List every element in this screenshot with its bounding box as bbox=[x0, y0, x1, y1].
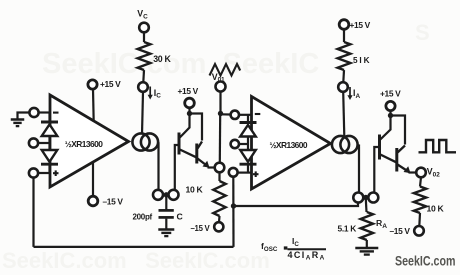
wire supply to Q2 collector bbox=[190, 114, 203, 141]
ground at U1 inverting input bbox=[11, 118, 25, 121]
wire Q1 base lead bbox=[175, 145, 179, 190]
terminal V01 bbox=[216, 82, 226, 92]
terminal V02 bbox=[416, 168, 426, 178]
wire 10K to -15V stage2 bbox=[418, 213, 421, 226]
wire plus input to U1 bbox=[38, 172, 50, 174]
svg-text:C: C bbox=[177, 212, 184, 222]
wire 5.1K to IA terminal bbox=[342, 70, 345, 82]
svg-text:½XR13600: ½XR13600 bbox=[270, 140, 308, 150]
wire emitter node to 10K bbox=[218, 172, 220, 181]
wire D1 to D2 bbox=[48, 136, 50, 150]
diode D3 bbox=[240, 121, 257, 124]
capacitor C 200pF bbox=[159, 209, 174, 212]
plus sign U2 bbox=[253, 173, 259, 175]
svg-text:200pf: 200pf bbox=[133, 213, 153, 222]
wire cap to ground bbox=[165, 219, 167, 229]
transistor Q4 base bar bbox=[395, 148, 398, 172]
diode D2 bbox=[42, 150, 58, 162]
wire Q4 emitter to V02 bbox=[409, 171, 417, 173]
terminal -15V stage1 bbox=[214, 222, 223, 231]
terminal U1 inverting input bbox=[29, 108, 38, 117]
resistor RA 5.1K bbox=[361, 212, 373, 240]
terminal U1 non-inverting input bbox=[29, 168, 38, 177]
transistor Q4 collector bbox=[398, 146, 406, 153]
wire 10K to -15V bbox=[218, 216, 221, 222]
svg-text:–15 V: –15 V bbox=[191, 224, 211, 233]
ground below RA bbox=[355, 247, 378, 250]
wire cap node down bbox=[165, 196, 167, 210]
svg-text:30 K: 30 K bbox=[153, 54, 171, 64]
svg-text:10 K: 10 K bbox=[186, 184, 204, 194]
wire R1 to Ic terminal bbox=[142, 70, 145, 82]
svg-text:SeekIC.com SeekIC: SeekIC.com SeekIC bbox=[42, 48, 319, 80]
junction feedback branch bbox=[231, 203, 236, 208]
wire feedback bottom bbox=[34, 246, 234, 248]
svg-text:10 K: 10 K bbox=[427, 204, 445, 214]
wire inv input to U1 bbox=[39, 111, 50, 113]
wire Q3 base lead bbox=[374, 147, 379, 193]
svg-text:SeekIC.com: SeekIC.com bbox=[395, 253, 456, 269]
wire RA node down bbox=[365, 199, 368, 212]
terminal Vc bbox=[139, 23, 149, 33]
diode D4 bbox=[240, 150, 256, 162]
wire Ic to OTA1 output stage bbox=[142, 92, 143, 135]
wire inv input to ground bbox=[18, 113, 30, 120]
op-amp U1 1/2 XR13600 bbox=[50, 95, 129, 187]
op-amp U2 1/2 XR13600 bbox=[252, 97, 331, 190]
wire OTA1 out down to pin bbox=[157, 143, 160, 190]
junction V01 node bbox=[218, 111, 223, 116]
transistor Q2 base bar bbox=[195, 144, 198, 164]
terminal U2 non-inverting input bbox=[229, 168, 238, 177]
svg-text:½XR13600: ½XR13600 bbox=[65, 139, 103, 149]
resistor 10K stage2 bbox=[414, 187, 426, 214]
transistor Q4 emitter bbox=[398, 165, 410, 173]
terminal buffer1 emitter bbox=[215, 163, 225, 173]
wire supply to Q4 collector bbox=[391, 116, 406, 145]
svg-text:–15 V: –15 V bbox=[103, 197, 124, 207]
wire V02 to 10K bbox=[420, 177, 421, 186]
triangle wave symbol bbox=[210, 64, 241, 76]
resistor 10K stage1 bbox=[213, 181, 225, 216]
terminal OTA1 output pin bbox=[153, 190, 163, 200]
terminal diode bias U2 bbox=[231, 140, 239, 148]
terminal +15V buffer1 bbox=[185, 98, 195, 108]
wire D4 to plus input U2 bbox=[247, 165, 249, 174]
wire bias stub U2 bbox=[239, 143, 248, 145]
svg-text:5 I K: 5 I K bbox=[353, 56, 370, 65]
wire diode chain top U1 bbox=[48, 113, 50, 123]
wire U2 inv input stub bbox=[239, 114, 252, 116]
transistor Q3 collector bbox=[380, 116, 390, 140]
junction buffer2 supply bbox=[388, 113, 393, 118]
terminal -15V stage2 bbox=[414, 226, 424, 236]
current arrow IA bbox=[349, 87, 351, 98]
resistor R1 30K bbox=[138, 42, 151, 70]
wire feedback up to U2 plus bbox=[232, 176, 234, 247]
resistor 51K bias bbox=[338, 42, 351, 70]
terminal +15V U1 bbox=[88, 80, 97, 89]
wire +15V to U1 top bbox=[92, 89, 95, 122]
svg-text:+15 V: +15 V bbox=[100, 79, 121, 89]
terminal buffer1 input pin bbox=[169, 190, 179, 200]
wire diode chain top U2 bbox=[247, 115, 249, 123]
svg-text:+15 V: +15 V bbox=[380, 89, 401, 99]
terminal IA bbox=[338, 82, 348, 92]
terminal buffer2 input pin bbox=[368, 193, 378, 203]
wire IA to OTA2 output stage bbox=[343, 92, 344, 137]
wire U1 bottom to -15V bbox=[92, 161, 94, 196]
wire Vc to R1 bbox=[143, 32, 145, 42]
wire U2 plus input stub bbox=[238, 172, 252, 174]
transistor Q3 emitter bbox=[380, 155, 396, 163]
terminal +15V IA bbox=[339, 20, 349, 30]
terminal OTA2 output pin bbox=[353, 193, 363, 203]
transistor Q2 collector bbox=[198, 142, 203, 149]
svg-text:–15 V: –15 V bbox=[390, 226, 411, 236]
wire feedback U1 plus input down bbox=[32, 178, 34, 247]
wire feedback to RA node bbox=[234, 202, 359, 207]
wire D3 to D4 bbox=[247, 137, 249, 151]
transistor Q2 emitter bbox=[198, 159, 209, 167]
svg-text:5.1 K: 5.1 K bbox=[338, 223, 357, 233]
wire Q2 emitter to node bbox=[208, 166, 215, 168]
current arrow Ic bbox=[149, 87, 151, 98]
svg-text:+15 V: +15 V bbox=[350, 20, 371, 30]
plus sign U1 bbox=[53, 172, 59, 174]
transistor Q1 emitter bbox=[180, 150, 196, 158]
transistor Q1 collector bbox=[180, 114, 190, 138]
wire V01 node to emitter node bbox=[219, 114, 222, 163]
svg-text:S: S bbox=[415, 20, 430, 45]
svg-text:+15 V: +15 V bbox=[178, 86, 199, 96]
square wave symbol bbox=[419, 140, 457, 152]
terminal U2 inverting input bbox=[231, 111, 239, 119]
minus sign U2 bbox=[255, 113, 260, 115]
junction RA node bbox=[363, 195, 368, 200]
terminal diode bias U1 bbox=[29, 138, 38, 147]
wire +15V down bbox=[188, 108, 190, 114]
svg-text:SeekIC.com SeekIC.com: SeekIC.com SeekIC.com bbox=[2, 248, 270, 270]
wire RA to ground bbox=[366, 240, 368, 248]
ground below capacitor bbox=[158, 228, 174, 231]
terminal +15V buffer2 bbox=[386, 101, 395, 110]
OTA1 output stage circles bbox=[132, 133, 149, 150]
wire D2 to plus input bbox=[48, 165, 50, 174]
diode D1 bbox=[41, 121, 58, 124]
wire V01 down bbox=[219, 92, 221, 114]
junction cap node bbox=[164, 192, 169, 197]
wire +15V buffer2 down bbox=[389, 111, 391, 116]
terminal -15V U1 bbox=[88, 196, 98, 206]
transistor Q3 base bar bbox=[378, 135, 381, 160]
junction buffer1 supply bbox=[187, 111, 192, 116]
wire +15V to 5.1K bbox=[343, 29, 345, 42]
wire V01 node to U2 inv input bbox=[221, 113, 231, 115]
terminal Ic bbox=[138, 82, 148, 92]
minus sign U1 bbox=[53, 112, 59, 114]
wire OTA2 out down to pin bbox=[358, 145, 359, 193]
wire bias stub U1 bbox=[38, 142, 49, 144]
transistor Q1 base bar bbox=[178, 133, 181, 155]
OTA2 output stage circles bbox=[332, 136, 349, 153]
